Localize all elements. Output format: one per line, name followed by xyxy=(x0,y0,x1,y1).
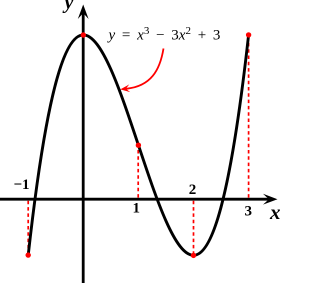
svg-text:y = x3 − 3x2 + 3: y = x3 − 3x2 + 3 xyxy=(107,25,221,44)
red annotation arrow xyxy=(125,49,164,89)
y-axis xyxy=(82,11,85,283)
point (2,-1) xyxy=(191,253,196,258)
svg-text:x: x xyxy=(269,200,281,224)
svg-text:3: 3 xyxy=(245,204,253,220)
point (0,3) xyxy=(81,32,86,37)
svg-text:1: 1 xyxy=(133,201,141,217)
x-axis xyxy=(0,198,270,201)
point (1,1) xyxy=(136,143,141,148)
svg-text:−1: −1 xyxy=(13,177,29,193)
dashed guide x=3 xyxy=(248,38,250,198)
dashed guide x=1 xyxy=(137,147,139,197)
point (3,3) xyxy=(246,32,251,37)
y-axis arrowhead xyxy=(78,5,89,20)
point (-1,-1) xyxy=(26,252,31,257)
dashed guide x=2 xyxy=(193,201,195,253)
dashed guide x=-1 xyxy=(27,201,29,253)
svg-text:2: 2 xyxy=(189,182,197,198)
cubic curve y = x^3 - 3x^2 + 3 xyxy=(28,35,248,255)
svg-text:y: y xyxy=(63,0,74,14)
x-axis arrowhead xyxy=(263,194,278,205)
